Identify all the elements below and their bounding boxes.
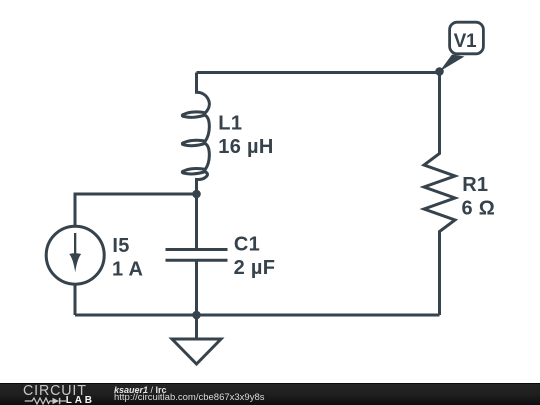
svg-text:L1: L1 — [218, 113, 242, 135]
svg-text:2 µF: 2 µF — [234, 257, 276, 279]
svg-text:C1: C1 — [234, 234, 260, 256]
svg-text:16 µH: 16 µH — [218, 136, 273, 158]
svg-text:6 Ω: 6 Ω — [462, 197, 496, 219]
svg-text:I5: I5 — [112, 235, 129, 257]
svg-text:1 A: 1 A — [112, 258, 143, 280]
svg-text:V1: V1 — [454, 31, 477, 52]
svg-text:R1: R1 — [462, 174, 488, 196]
